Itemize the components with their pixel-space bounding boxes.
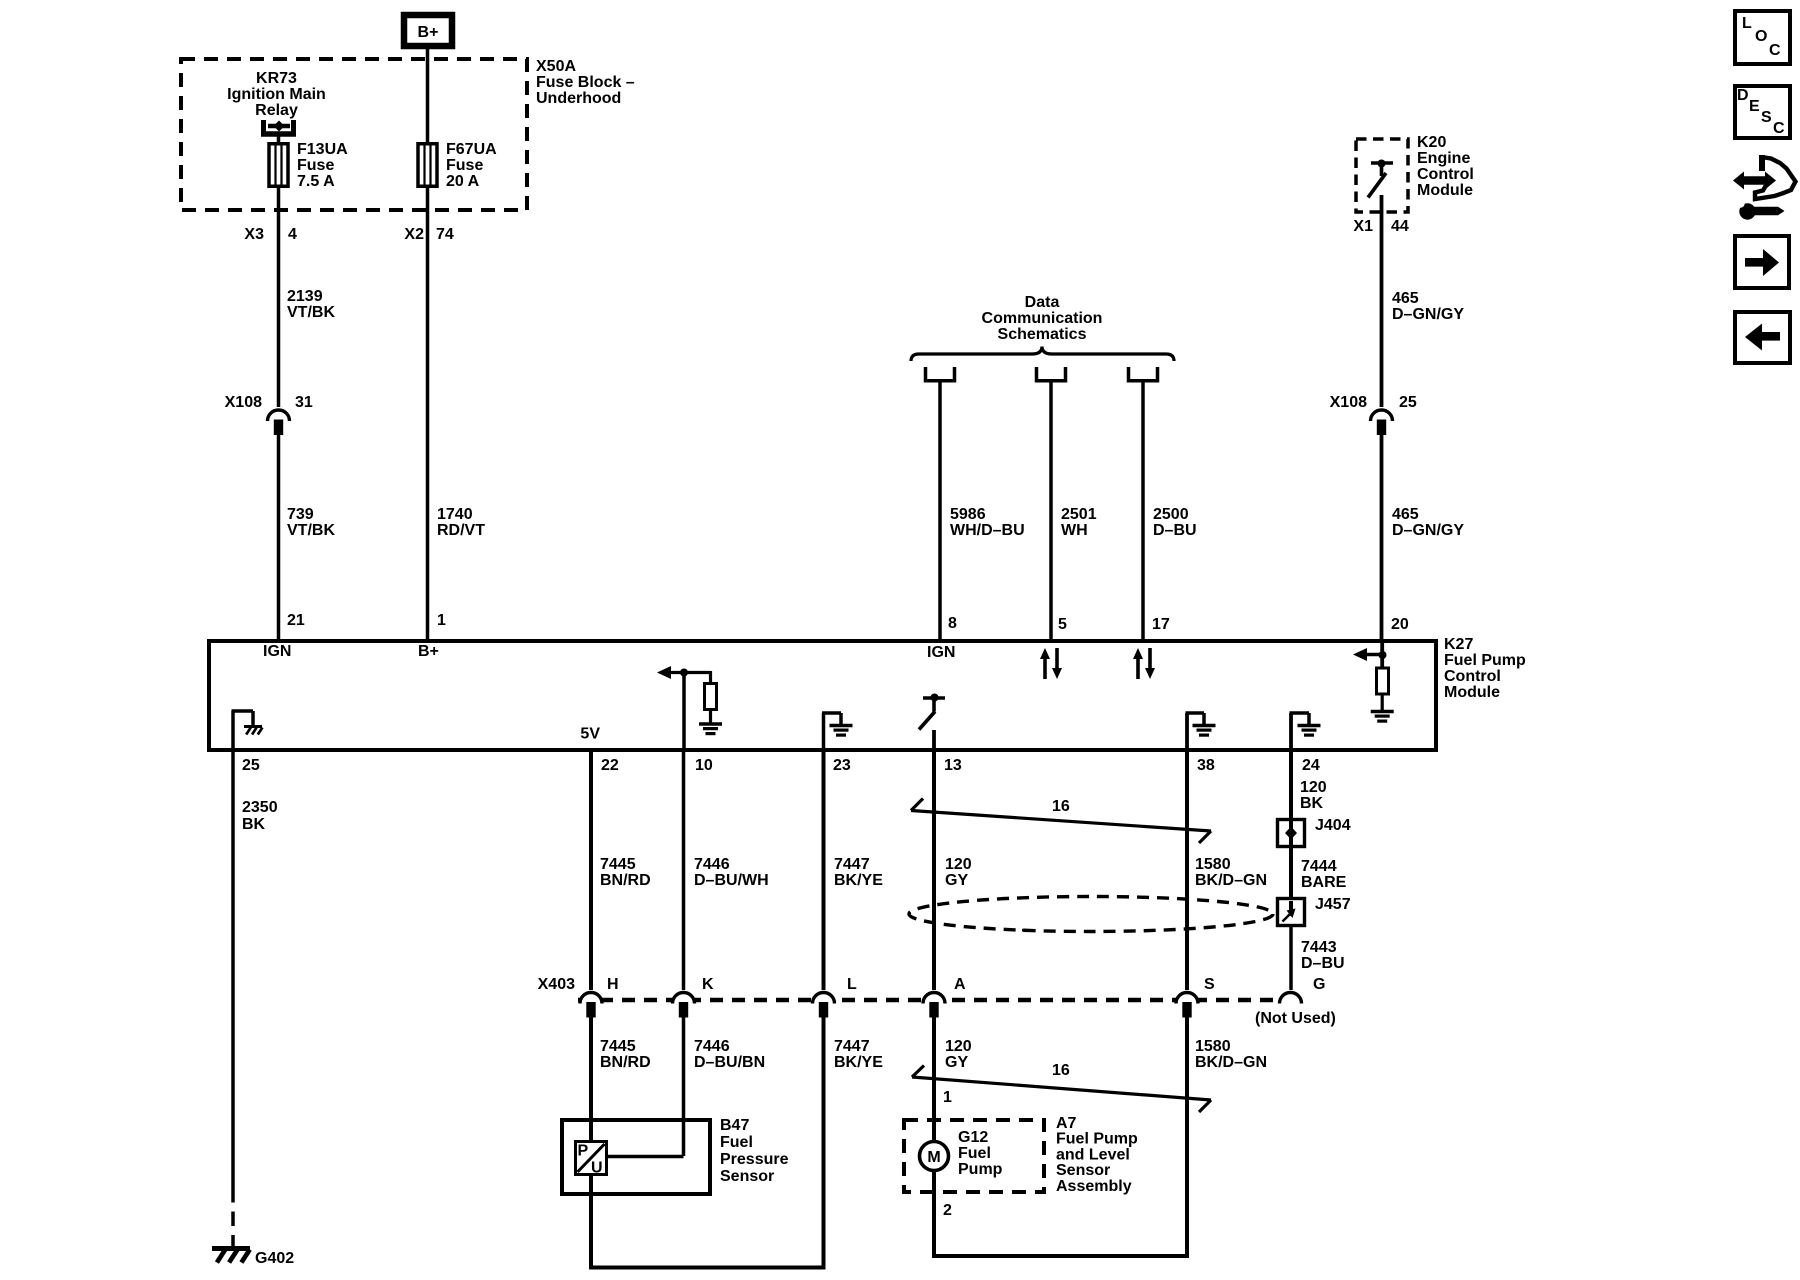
shield crossing indicator 16 lower [912, 1077, 1211, 1100]
svg-text:120: 120 [945, 1038, 972, 1055]
module internal ground pin 24 [1289, 713, 1293, 749]
svg-text:4: 4 [288, 226, 297, 243]
wire 7445 module to X403 pin H [589, 749, 593, 990]
connector X403 pin S [1176, 993, 1198, 1004]
svg-text:Fuel: Fuel [958, 1145, 991, 1162]
fuel pump motor G12 [920, 1142, 949, 1171]
fuse F67UA 20 A [418, 144, 437, 187]
wire 2500 to module pin 17 [1141, 380, 1145, 641]
svg-text:GY: GY [945, 1054, 968, 1071]
svg-text:A7: A7 [1056, 1115, 1077, 1132]
svg-text:2139: 2139 [287, 288, 323, 305]
svg-text:F13UA: F13UA [297, 141, 348, 158]
module internal ground pin 23 [822, 713, 826, 749]
svg-text:20: 20 [1391, 616, 1409, 633]
wire fuel pump to return [932, 1171, 936, 1259]
svg-text:2: 2 [943, 1202, 952, 1219]
sidebar LOC icon [1735, 11, 1790, 64]
svg-text:7.5 A: 7.5 A [297, 173, 335, 190]
K20 driver switch symbol [1371, 161, 1393, 165]
svg-text:13: 13 [944, 757, 962, 774]
svg-text:Module: Module [1417, 182, 1473, 199]
svg-text:25: 25 [1399, 394, 1417, 411]
svg-text:Control: Control [1444, 668, 1501, 685]
svg-text:Fuel Pump: Fuel Pump [1444, 652, 1526, 669]
module internal sense arrow and resistor pin 20 [1379, 651, 1387, 659]
svg-text:RD/VT: RD/VT [437, 522, 485, 539]
svg-text:X1: X1 [1353, 218, 1373, 235]
connector X403 pin A [923, 993, 945, 1004]
svg-text:2500: 2500 [1153, 506, 1189, 523]
svg-text:BK: BK [1300, 795, 1324, 812]
svg-text:IGN: IGN [927, 644, 955, 661]
module internal ground pin 10 [699, 722, 722, 725]
svg-text:31: 31 [295, 394, 313, 411]
svg-text:M: M [927, 1149, 940, 1166]
svg-text:B+: B+ [418, 643, 439, 660]
svg-text:IGN: IGN [263, 643, 291, 660]
wire 120 BK module to splice J404 [1289, 749, 1293, 821]
svg-text:7446: 7446 [694, 1038, 730, 1055]
wire 2350 BK to ground [231, 749, 235, 1188]
svg-text:24: 24 [1302, 757, 1320, 774]
svg-text:BN/RD: BN/RD [600, 872, 651, 889]
ground G402 [212, 1246, 250, 1251]
svg-text:X3: X3 [244, 226, 264, 243]
fuel pressure sensor bottom return wire [589, 1266, 826, 1270]
wire B+ feed into fuse block [426, 49, 430, 142]
svg-text:7445: 7445 [600, 1038, 636, 1055]
svg-text:D–GN/GY: D–GN/GY [1392, 522, 1464, 539]
svg-text:Fuse: Fuse [297, 157, 334, 174]
svg-text:739: 739 [287, 506, 314, 523]
wire 5986 to module pin 8 [938, 380, 942, 641]
svg-text:Underhood: Underhood [536, 90, 621, 107]
wire fuse F13UA to module pin 21 [277, 188, 281, 407]
svg-text:B+: B+ [418, 24, 439, 41]
connector X403 pin H [580, 993, 602, 1004]
wire 7447 module to X403 pin L [822, 749, 826, 990]
svg-text:VT/BK: VT/BK [287, 304, 335, 321]
svg-text:16: 16 [1052, 798, 1070, 815]
svg-text:25: 25 [242, 757, 260, 774]
wire 7445 X403 to fuel pressure sensor [589, 1016, 593, 1141]
svg-text:X108: X108 [225, 394, 262, 411]
engine control module K20 dashed box [1356, 139, 1408, 212]
svg-text:G: G [1313, 976, 1325, 993]
module internal bidirectional arrows pin 5 [1043, 658, 1047, 679]
svg-text:120: 120 [1300, 779, 1327, 796]
svg-text:Assembly: Assembly [1056, 1178, 1132, 1195]
svg-text:B47: B47 [720, 1117, 749, 1134]
off-page connector for wire 2500 [1129, 367, 1158, 381]
svg-text:Fuse: Fuse [446, 157, 483, 174]
svg-text:WH/D–BU: WH/D–BU [950, 522, 1025, 539]
svg-text:L: L [847, 976, 857, 993]
svg-text:D–BU/BN: D–BU/BN [694, 1054, 765, 1071]
svg-text:S: S [1761, 109, 1772, 126]
svg-text:G402: G402 [255, 1250, 294, 1267]
svg-text:BK/D–GN: BK/D–GN [1195, 872, 1267, 889]
svg-text:7447: 7447 [834, 856, 870, 873]
svg-text:5: 5 [1058, 616, 1067, 633]
svg-text:Pressure: Pressure [720, 1151, 789, 1168]
fuse F13UA 7.5 A [269, 144, 288, 187]
wire 1580 X403 to fuel pump return [1185, 1016, 1189, 1258]
svg-text:465: 465 [1392, 506, 1419, 523]
svg-text:(Not Used): (Not Used) [1255, 1010, 1336, 1027]
svg-text:F67UA: F67UA [446, 141, 497, 158]
svg-text:Data: Data [1025, 294, 1060, 311]
svg-text:Sensor: Sensor [1056, 1162, 1110, 1179]
svg-text:and Level: and Level [1056, 1146, 1130, 1163]
svg-text:K27: K27 [1444, 636, 1473, 653]
svg-text:G12: G12 [958, 1129, 988, 1146]
svg-text:C: C [1773, 120, 1785, 137]
drain wire 7444 BARE J404 to J457 [1289, 845, 1293, 901]
wire 7443 D-BU J457 to X403 pin G [1289, 924, 1293, 990]
svg-text:K: K [702, 976, 714, 993]
module internal sense arrow and resistor pin 10 [682, 671, 686, 749]
svg-text:44: 44 [1391, 218, 1409, 235]
off-page connector for wire 5986 [926, 367, 955, 381]
sidebar back arrow icon [1735, 312, 1790, 363]
svg-text:X108: X108 [1330, 394, 1367, 411]
svg-text:Control: Control [1417, 166, 1474, 183]
svg-text:5986: 5986 [950, 506, 986, 523]
svg-text:KR73: KR73 [256, 70, 297, 87]
svg-text:1: 1 [437, 612, 446, 629]
svg-text:X403: X403 [538, 976, 575, 993]
svg-text:22: 22 [601, 757, 619, 774]
brace for data communication schematics [911, 347, 1174, 362]
svg-text:X2: X2 [404, 226, 424, 243]
sidebar forward arrow icon [1735, 236, 1789, 288]
pressure transducer P/U symbol [576, 1142, 607, 1175]
svg-text:K20: K20 [1417, 134, 1446, 151]
wire 7447 X403 to fuel pressure sensor return [822, 1016, 826, 1270]
svg-text:21: 21 [287, 612, 305, 629]
svg-text:P: P [578, 1143, 589, 1160]
svg-text:Sensor: Sensor [720, 1168, 774, 1185]
svg-text:5V: 5V [580, 726, 600, 743]
svg-text:7443: 7443 [1301, 939, 1337, 956]
fuel pump bottom return wire [932, 1254, 1189, 1258]
svg-text:BK/D–GN: BK/D–GN [1195, 1054, 1267, 1071]
module internal switch pin 13 [923, 696, 945, 700]
svg-text:BK/YE: BK/YE [834, 1054, 883, 1071]
svg-text:38: 38 [1197, 757, 1215, 774]
svg-text:D–BU: D–BU [1153, 522, 1197, 539]
svg-text:WH: WH [1061, 522, 1088, 539]
wire 120 GY module to X403 pin A [932, 749, 936, 990]
wire 1580 module to X403 pin S [1185, 749, 1189, 990]
svg-text:7446: 7446 [694, 856, 730, 873]
connector X108 pin 31 [268, 410, 290, 421]
svg-text:Module: Module [1444, 684, 1500, 701]
sidebar DESC icon [1735, 86, 1790, 138]
wire sensor output down [589, 1174, 593, 1270]
svg-text:Fuel: Fuel [720, 1134, 753, 1151]
module internal bidirectional arrows pin 17 [1136, 658, 1140, 679]
module internal ground pin 20 [1371, 710, 1394, 713]
svg-text:O: O [1755, 28, 1767, 45]
fuel pump control module K27 box [209, 641, 1436, 750]
svg-text:74: 74 [436, 226, 454, 243]
splice J404 [1278, 820, 1305, 847]
svg-text:GY: GY [945, 872, 968, 889]
svg-text:J404: J404 [1315, 817, 1351, 834]
svg-text:2350: 2350 [242, 799, 278, 816]
svg-text:23: 23 [833, 757, 851, 774]
sidebar quick link icon [1733, 172, 1776, 190]
svg-text:BN/RD: BN/RD [600, 1054, 651, 1071]
connector X403 pin K [673, 993, 695, 1004]
wire inside sensor to K [606, 1155, 684, 1159]
svg-text:1740: 1740 [437, 506, 473, 523]
svg-text:7445: 7445 [600, 856, 636, 873]
wire 7446 module to X403 pin K [682, 749, 686, 990]
svg-text:1: 1 [943, 1089, 952, 1106]
svg-text:D–GN/GY: D–GN/GY [1392, 306, 1464, 323]
wire 7446 X403 to fuel pressure sensor [682, 1016, 686, 1156]
svg-text:L: L [1742, 15, 1752, 32]
relay KR73 contact symbol [261, 120, 266, 134]
svg-text:U: U [591, 1160, 603, 1177]
svg-text:BK: BK [242, 816, 266, 833]
svg-text:E: E [1749, 98, 1760, 115]
svg-text:Relay: Relay [255, 102, 298, 119]
svg-text:X50A: X50A [536, 58, 576, 75]
svg-text:BK/YE: BK/YE [834, 872, 883, 889]
svg-text:A: A [954, 976, 966, 993]
fuel pressure sensor B47 box [562, 1120, 710, 1194]
wire 120 GY X403 to fuel pump [932, 1016, 936, 1143]
svg-text:16: 16 [1052, 1062, 1070, 1079]
connector X403 pin G not used [1280, 993, 1302, 1004]
wire X108 to module pin 21 [277, 434, 281, 641]
svg-text:Fuse Block –: Fuse Block – [536, 74, 635, 91]
fuel pump assembly A7 dashed box [904, 1120, 1044, 1192]
connector X403 dashed line [578, 998, 1301, 1003]
wire 2501 to module pin 5 [1049, 380, 1053, 641]
fuse block X50A dashed box [181, 59, 527, 210]
svg-text:VT/BK: VT/BK [287, 522, 335, 539]
svg-text:7447: 7447 [834, 1038, 870, 1055]
svg-text:H: H [607, 976, 619, 993]
svg-text:C: C [1769, 42, 1781, 59]
svg-text:120: 120 [945, 856, 972, 873]
wire X108 to module pin 20 [1380, 434, 1384, 641]
connector X403 pin L [813, 993, 835, 1004]
svg-text:Engine: Engine [1417, 150, 1470, 167]
wire K20 to connector X108 [1380, 195, 1384, 407]
wire fuse F67UA to module pin 1 [426, 188, 430, 641]
svg-text:465: 465 [1392, 290, 1419, 307]
svg-text:BARE: BARE [1301, 874, 1347, 891]
connector X108 pin 25 [1371, 410, 1393, 421]
svg-text:Schematics: Schematics [998, 326, 1087, 343]
svg-text:D–BU: D–BU [1301, 955, 1345, 972]
svg-text:S: S [1204, 976, 1215, 993]
shield crossing indicator 16 upper [911, 811, 1211, 832]
svg-text:D–BU/WH: D–BU/WH [694, 872, 769, 889]
svg-text:1580: 1580 [1195, 856, 1231, 873]
svg-text:10: 10 [695, 757, 713, 774]
svg-text:2501: 2501 [1061, 506, 1097, 523]
svg-text:8: 8 [948, 615, 957, 632]
svg-text:Communication: Communication [982, 310, 1103, 327]
module internal chassis ground pin 25 [231, 711, 235, 749]
shield ellipse around wires [909, 897, 1273, 932]
off-page connector for wire 2501 [1037, 367, 1066, 381]
module internal ground pin 38 [1185, 713, 1189, 749]
svg-text:Fuel Pump: Fuel Pump [1056, 1131, 1138, 1148]
battery positive B+ box [404, 15, 452, 46]
splice J457 [1278, 899, 1305, 926]
svg-text:17: 17 [1152, 616, 1170, 633]
svg-text:Ignition Main: Ignition Main [227, 86, 326, 103]
svg-text:D: D [1737, 87, 1749, 104]
svg-text:Pump: Pump [958, 1161, 1003, 1178]
svg-text:20 A: 20 A [446, 173, 480, 190]
svg-text:7444: 7444 [1301, 858, 1337, 875]
svg-text:J457: J457 [1315, 896, 1351, 913]
svg-text:1580: 1580 [1195, 1038, 1231, 1055]
